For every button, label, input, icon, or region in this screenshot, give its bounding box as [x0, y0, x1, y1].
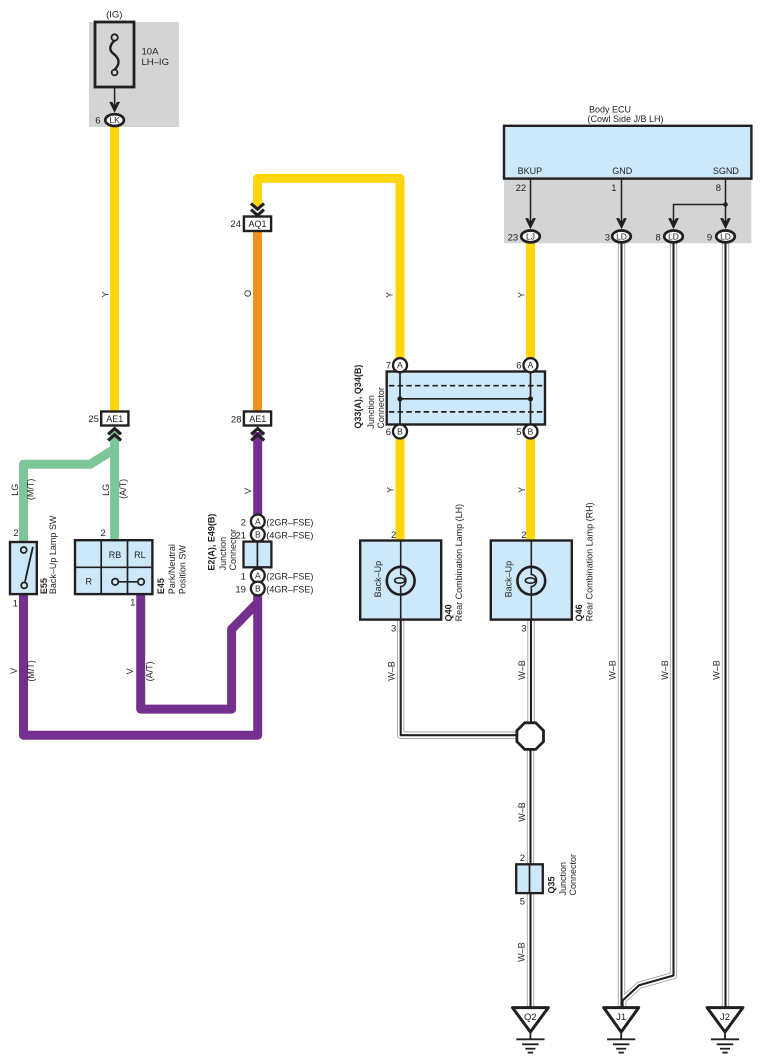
svg-text:W–B: W–B	[517, 802, 527, 822]
svg-text:(2GR–FSE): (2GR–FSE)	[266, 517, 313, 527]
svg-text:W–B: W–B	[660, 660, 670, 680]
svg-text:1: 1	[241, 571, 246, 582]
svg-text:A: A	[255, 516, 261, 526]
svg-text:28: 28	[231, 414, 242, 425]
svg-text:Back–Up: Back–Up	[373, 561, 383, 598]
svg-text:23: 23	[508, 232, 519, 243]
svg-text:B: B	[255, 584, 261, 594]
svg-text:1: 1	[130, 598, 135, 609]
svg-text:Rear Combination Lamp (LH): Rear Combination Lamp (LH)	[454, 504, 464, 622]
svg-text:LD: LD	[668, 231, 679, 241]
svg-text:A: A	[528, 360, 534, 370]
svg-text:6: 6	[95, 115, 100, 126]
svg-text:B: B	[528, 427, 534, 437]
svg-text:9: 9	[707, 232, 712, 243]
svg-text:LH–IG: LH–IG	[142, 57, 169, 68]
svg-text:V: V	[125, 668, 135, 674]
svg-text:1: 1	[13, 598, 18, 609]
svg-text:Y: Y	[384, 292, 394, 298]
svg-text:LG: LG	[101, 484, 111, 496]
svg-text:Back–Up Lamp SW: Back–Up Lamp SW	[48, 515, 58, 594]
svg-text:3: 3	[521, 624, 526, 635]
svg-text:Q46: Q46	[574, 604, 584, 621]
svg-text:5: 5	[520, 897, 525, 908]
svg-text:J2: J2	[720, 1012, 730, 1023]
svg-text:O: O	[243, 290, 253, 297]
svg-text:24: 24	[230, 219, 241, 230]
svg-text:5: 5	[516, 427, 521, 438]
svg-text:GND: GND	[612, 166, 633, 176]
svg-text:Q2: Q2	[524, 1012, 537, 1023]
svg-text:A: A	[255, 571, 261, 581]
svg-text:LD: LD	[720, 231, 731, 241]
svg-text:Junction: Junction	[558, 862, 568, 896]
svg-text:V: V	[243, 488, 253, 494]
svg-text:Position SW: Position SW	[177, 545, 187, 595]
svg-text:8: 8	[716, 183, 721, 194]
svg-text:Connector: Connector	[376, 387, 386, 429]
svg-text:6: 6	[516, 361, 521, 372]
svg-text:E2(A), E49(B): E2(A), E49(B)	[206, 514, 216, 571]
svg-text:Junction: Junction	[366, 395, 376, 429]
svg-text:Back–Up: Back–Up	[504, 561, 514, 598]
svg-text:(IG): (IG)	[106, 10, 122, 21]
svg-text:Junction: Junction	[218, 537, 228, 571]
svg-text:25: 25	[88, 414, 99, 425]
svg-text:R: R	[85, 576, 92, 586]
svg-text:10A: 10A	[142, 47, 160, 58]
svg-text:Y: Y	[517, 487, 527, 493]
svg-text:3: 3	[391, 624, 396, 635]
svg-text:RL: RL	[134, 550, 146, 560]
svg-text:W–B: W–B	[386, 661, 396, 681]
svg-text:J1: J1	[616, 1012, 626, 1023]
svg-text:LG: LG	[10, 484, 20, 496]
svg-text:2: 2	[521, 530, 526, 541]
svg-text:6: 6	[386, 427, 391, 438]
svg-text:AQ1: AQ1	[248, 219, 266, 229]
svg-text:1: 1	[611, 183, 616, 194]
svg-text:E45: E45	[156, 578, 166, 594]
svg-text:V: V	[9, 668, 19, 674]
svg-text:Rear Combination Lamp (RH): Rear Combination Lamp (RH)	[584, 502, 594, 621]
svg-text:AE1: AE1	[106, 414, 123, 424]
svg-text:3: 3	[605, 232, 610, 243]
svg-text:LJ: LJ	[526, 231, 535, 241]
svg-text:Connector: Connector	[228, 529, 238, 571]
svg-text:Y: Y	[100, 291, 110, 297]
svg-text:AE1: AE1	[249, 414, 266, 424]
svg-text:22: 22	[516, 183, 527, 194]
svg-text:W–B: W–B	[712, 660, 722, 680]
svg-text:SGND: SGND	[713, 166, 740, 176]
svg-text:(Cowl Side J/B LH): (Cowl Side J/B LH)	[588, 114, 664, 124]
svg-text:(M/T): (M/T)	[26, 479, 36, 501]
svg-text:(A/T): (A/T)	[118, 479, 128, 499]
svg-text:(4GR–FSE): (4GR–FSE)	[266, 584, 313, 594]
svg-text:2: 2	[391, 530, 396, 541]
svg-text:Y: Y	[516, 292, 526, 298]
svg-text:7: 7	[386, 361, 391, 372]
svg-text:(A/T): (A/T)	[145, 661, 155, 681]
svg-text:LD: LD	[616, 231, 627, 241]
svg-text:19: 19	[235, 584, 246, 595]
svg-text:2: 2	[101, 528, 106, 539]
svg-text:W–B: W–B	[608, 660, 618, 680]
svg-text:Connector: Connector	[568, 854, 578, 896]
svg-text:LK: LK	[109, 115, 120, 125]
svg-text:2: 2	[520, 853, 525, 864]
svg-text:Y: Y	[386, 487, 396, 493]
svg-text:A: A	[397, 360, 403, 370]
svg-text:W–B: W–B	[516, 942, 526, 962]
svg-text:(4GR–FSE): (4GR–FSE)	[266, 530, 313, 540]
svg-text:2: 2	[241, 517, 246, 528]
svg-text:B: B	[397, 427, 403, 437]
svg-text:8: 8	[656, 232, 661, 243]
svg-text:W–B: W–B	[517, 660, 527, 680]
svg-text:BKUP: BKUP	[518, 166, 543, 176]
svg-text:(M/T): (M/T)	[26, 660, 36, 682]
svg-text:(2GR–FSE): (2GR–FSE)	[266, 571, 313, 581]
svg-text:Q33(A), Q34(B): Q33(A), Q34(B)	[353, 365, 363, 429]
svg-text:RB: RB	[109, 550, 122, 560]
svg-text:2: 2	[13, 528, 18, 539]
svg-text:Q35: Q35	[546, 876, 556, 893]
svg-text:Q40: Q40	[444, 604, 454, 621]
svg-text:B: B	[255, 530, 261, 540]
svg-text:Park/Neutral: Park/Neutral	[167, 544, 177, 594]
